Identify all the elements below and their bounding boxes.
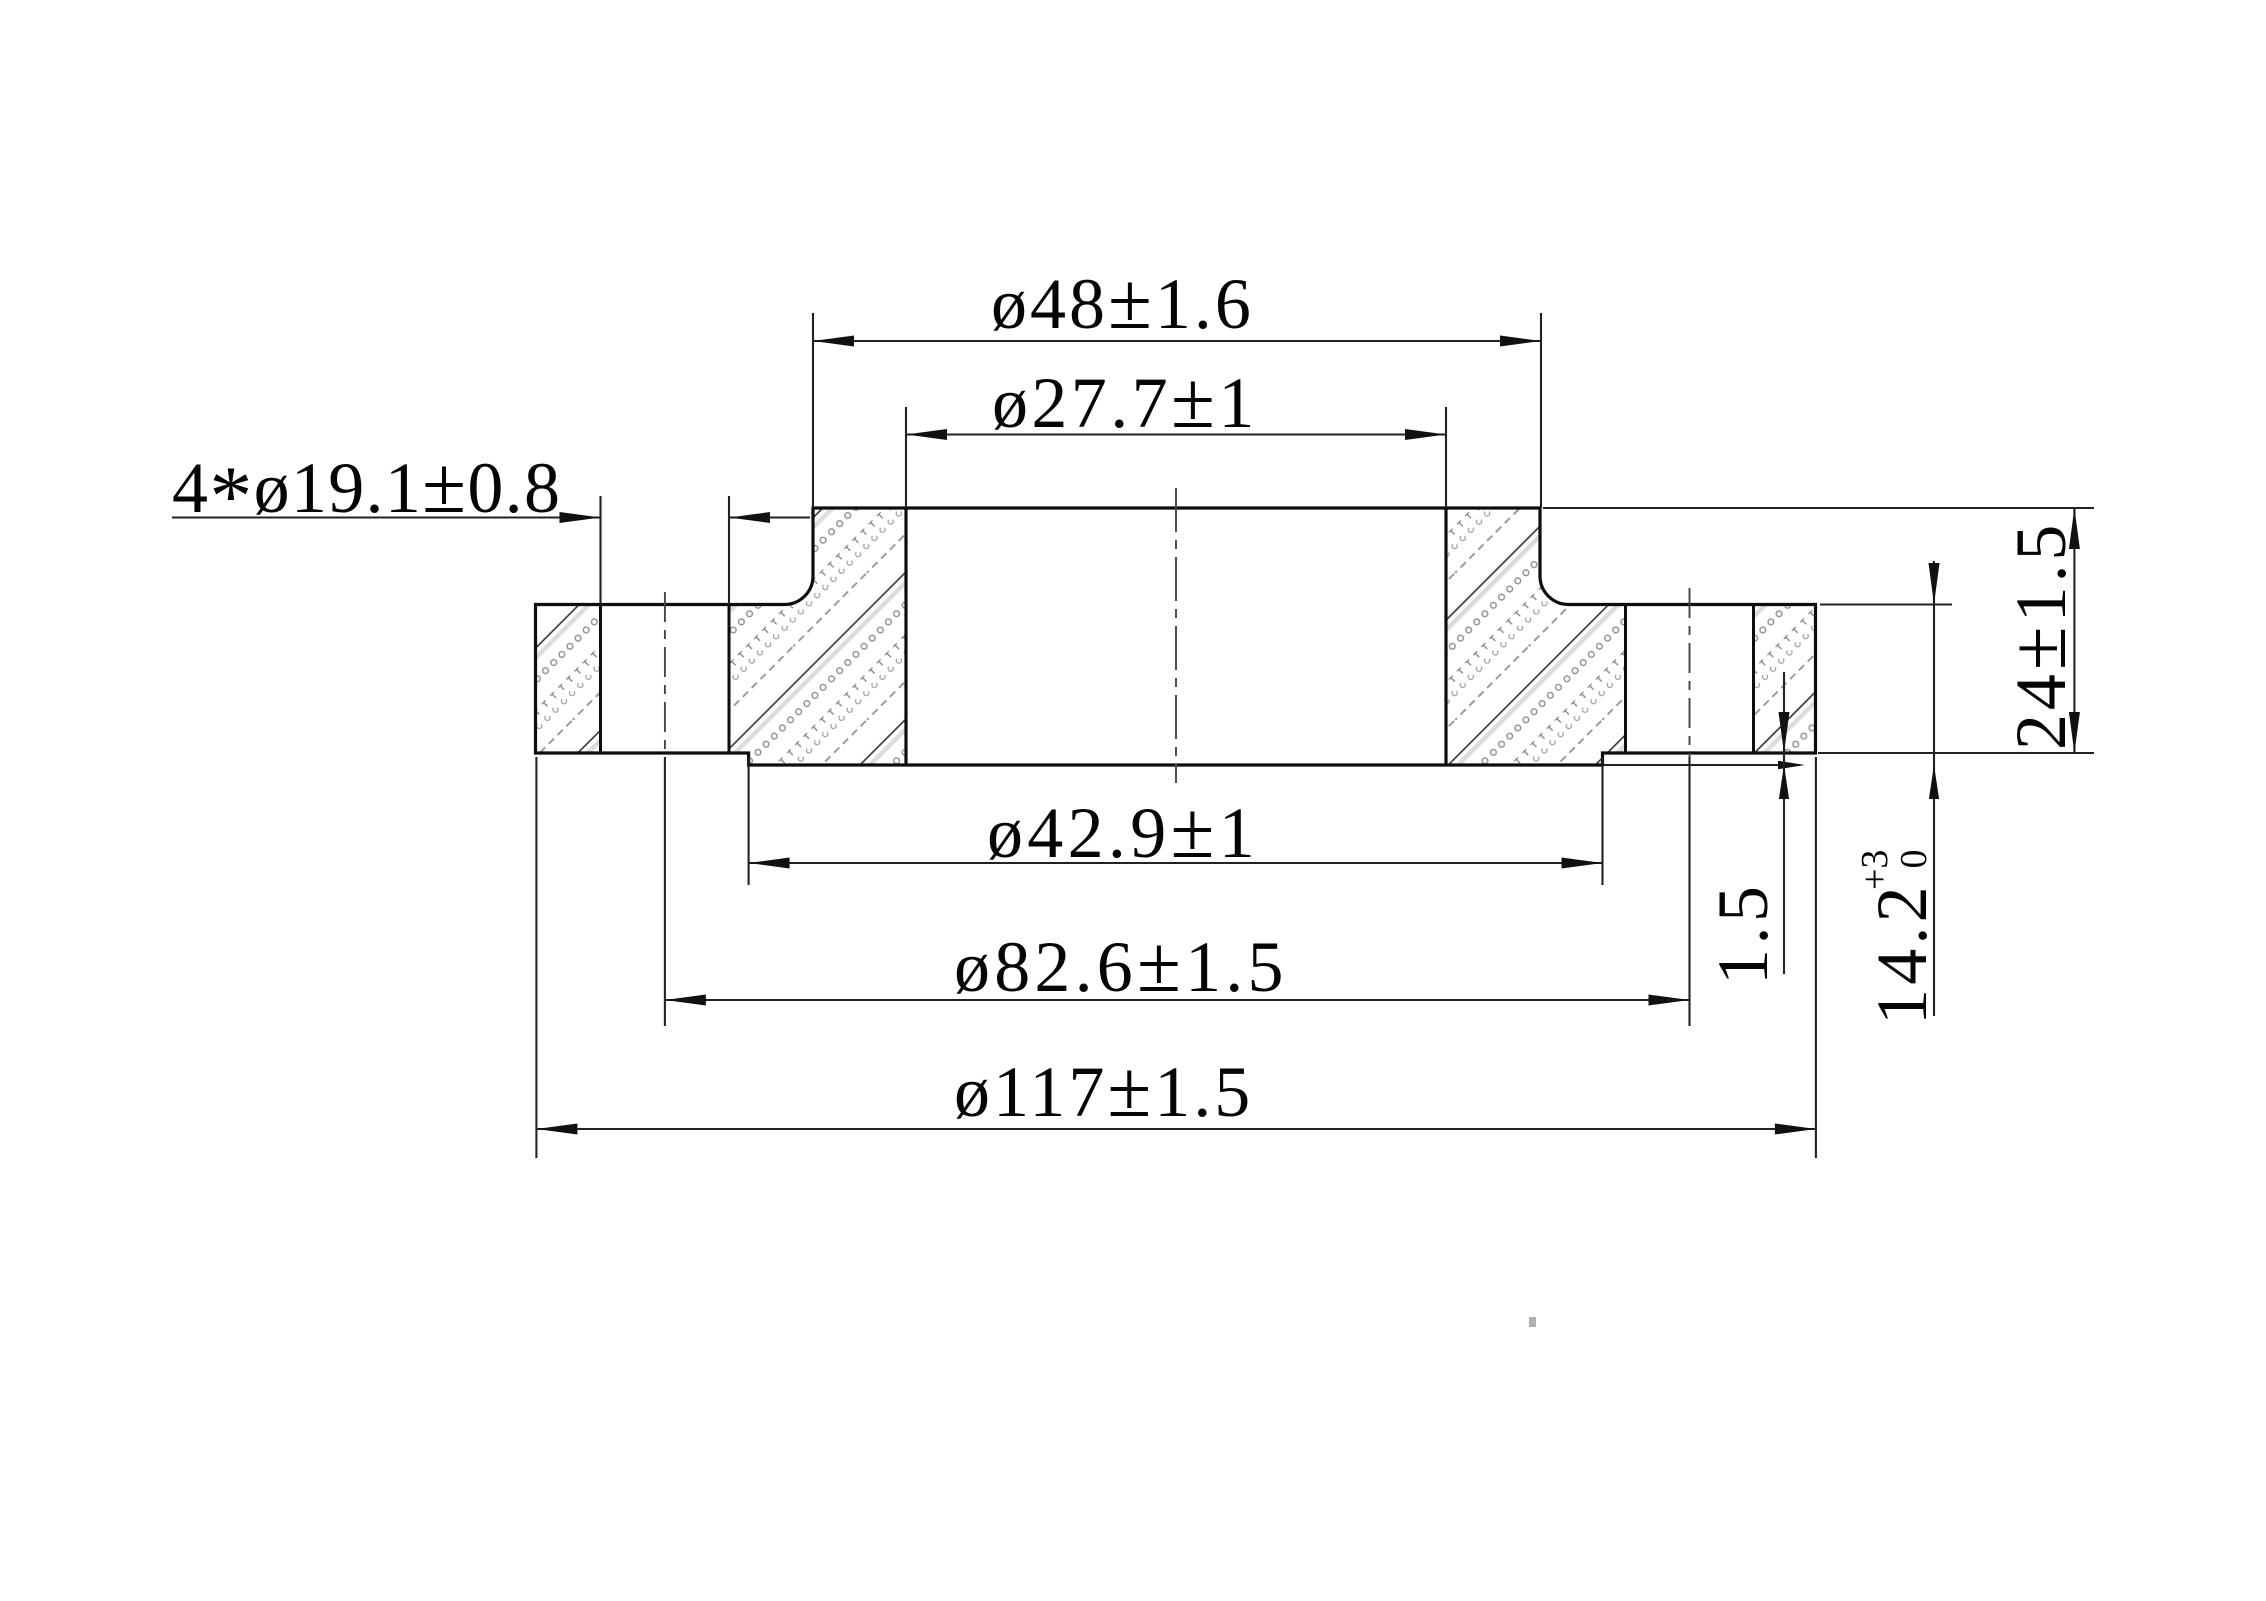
main centerline [1175,488,1177,783]
hatch region D: right outer flange block [1754,605,1816,754]
bolt centerline left [664,592,666,757]
dim 14.2: top extension line [1820,603,1952,605]
svg-text:0: 0 [1893,850,1935,869]
dim 14.2: dimension line [1933,561,1935,1016]
hatch region A: left outer flange block [536,605,601,754]
hatch region C: right hub wall + right flange section [1446,508,1626,765]
dim d82.6: extension lines [664,757,666,1026]
dim d27.7: extension lines [905,407,907,508]
svg-text:ø48±1.6: ø48±1.6 [991,258,1254,346]
dim d27.7: dimension line [906,433,1446,435]
bolt hole left: right edge [728,605,731,754]
svg-text:ø117±1.5: ø117±1.5 [954,1046,1253,1134]
dim d48: extension lines [812,313,814,508]
bore line left [904,508,907,765]
hatch region B: left hub wall + left flange section [729,508,906,765]
svg-text:ø82.6±1.5: ø82.6±1.5 [954,921,1288,1009]
dim d42.9: extension lines [748,757,750,885]
bolt centerline right [1689,588,1691,757]
dim d42.9: dimension line [749,862,1603,864]
svg-text:1.5: 1.5 [1703,882,1783,986]
dim 4xd19.1: dimension line + underline [172,516,601,518]
dim 24: dimension line [2073,508,2075,753]
bolt hole right: left edge [1624,605,1627,754]
svg-text:ø42.9±1: ø42.9±1 [987,787,1259,875]
dim d82.6: dimension line [665,999,1690,1001]
dim 14.2: bottom extension with arrow [1603,764,1791,766]
svg-text:24±1.5: 24±1.5 [1995,521,2083,750]
bolt hole right: right edge [1752,605,1755,754]
dim d117: extension lines [535,757,537,1158]
svg-text:ø27.7±1: ø27.7±1 [992,357,1258,445]
bolt hole left: left edge [599,605,602,754]
dim 1.5: dimension line [1783,672,1785,974]
dim 24: extension lines [1543,507,2094,509]
dim 4xd19.1: extension lines [599,496,601,605]
bore line right [1444,508,1447,765]
svg-text:+3: +3 [1854,850,1896,890]
svg-text:14.2: 14.2 [1862,882,1942,1025]
dim d117: dimension line [536,1128,1816,1130]
stray scan mark [1529,1317,1536,1327]
flange/hub section outline [536,508,1816,765]
dim d48: dimension line [813,340,1541,342]
